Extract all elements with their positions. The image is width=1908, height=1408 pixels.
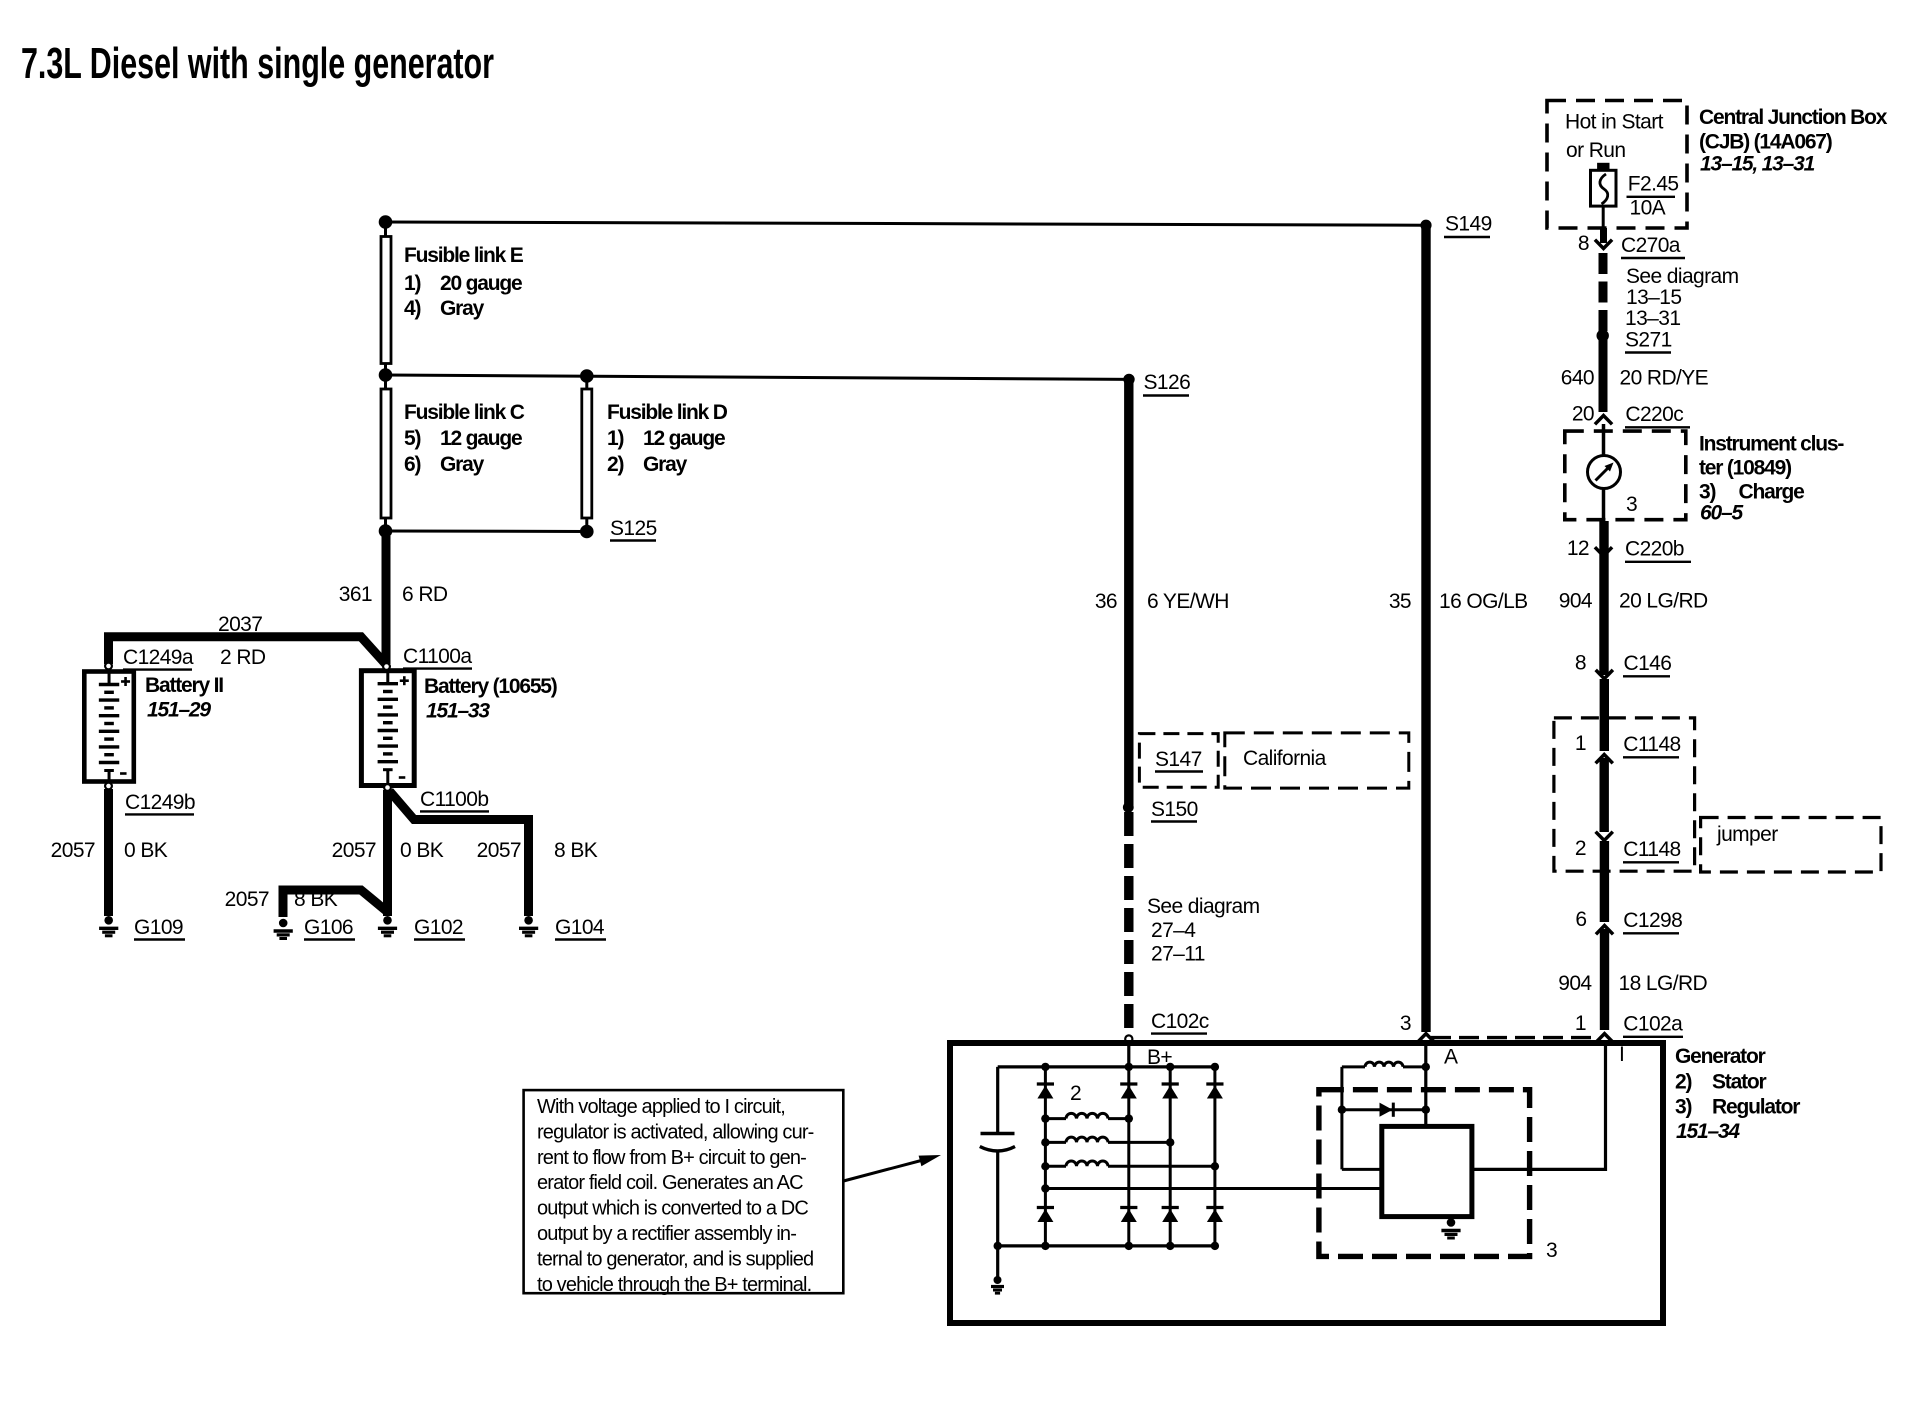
label: wire 2057 8 BK (G106 branch)	[225, 888, 338, 911]
wire: circuit 2037 2 RD from Battery II to battery junction	[109, 637, 387, 665]
C1148 connector block (dashed)	[1554, 718, 1695, 871]
wire: rectifier leg 2	[1127, 1067, 1130, 1246]
svg-text:output which is converted to a: output which is converted to a DC	[537, 1198, 808, 1220]
node: bottom bus junction leg 2	[1125, 1242, 1133, 1250]
node: junction below Fusible link E / top of link C	[379, 368, 393, 382]
svg-text:G106: G106	[304, 916, 353, 939]
wire: circuit 35 16 OG/LB (A circuit) from S149 to generator	[1421, 228, 1430, 1032]
svg-text:S150: S150	[1151, 798, 1198, 821]
svg-text:6): 6)	[404, 453, 420, 476]
svg-text:60–5: 60–5	[1700, 502, 1743, 525]
node: field coil to A terminal	[1422, 1063, 1430, 1071]
battery Battery (10655)	[361, 671, 414, 786]
svg-text:20: 20	[1572, 403, 1594, 426]
svg-text:8: 8	[1578, 232, 1589, 255]
svg-text:151–29: 151–29	[147, 699, 211, 722]
node: top bus junction leg 2	[1125, 1063, 1133, 1071]
svg-text:S149: S149	[1445, 213, 1492, 236]
svg-text:361: 361	[339, 583, 372, 606]
diode (upper, leg 3)	[1162, 1084, 1179, 1099]
label: wire 2057 8 BK (right)	[477, 839, 598, 862]
svg-text:2057: 2057	[477, 839, 521, 862]
regulator block	[1382, 1126, 1472, 1216]
connector C146	[1623, 652, 1671, 676]
wire: circuit 2057 0 BK from C1249b to G109	[104, 789, 113, 916]
svg-text:10A: 10A	[1630, 197, 1666, 220]
svg-text:or Run: or Run	[1566, 139, 1625, 162]
diode (lower, leg 1)	[1037, 1208, 1054, 1223]
svg-text:C1100a: C1100a	[403, 645, 472, 668]
connector C1148 (pin 2)	[1623, 838, 1681, 862]
node: splice S271	[1597, 329, 1609, 341]
connector C220b arrow	[1595, 547, 1612, 556]
svg-text:12: 12	[1567, 537, 1589, 560]
fusible link D	[582, 381, 592, 526]
diode (lower, leg 2)	[1120, 1208, 1137, 1223]
svg-text:C102c: C102c	[1151, 1010, 1209, 1033]
svg-text:2057: 2057	[332, 839, 376, 862]
svg-text:jumper: jumper	[1716, 823, 1778, 846]
svg-text:16 OG/LB: 16 OG/LB	[1439, 590, 1528, 613]
svg-text:36: 36	[1095, 590, 1117, 613]
wire: circuit 361 6 RD from S125 down to battery C1100a	[382, 536, 391, 664]
svg-text:20 gauge: 20 gauge	[440, 272, 522, 295]
svg-text:F2.45: F2.45	[1628, 173, 1679, 196]
svg-text:G104: G104	[555, 916, 605, 939]
svg-text:13–15: 13–15	[1626, 286, 1681, 309]
node: splice S150	[1123, 802, 1134, 813]
svg-text:6 RD: 6 RD	[402, 583, 448, 606]
wire: regulator to I terminal	[1472, 1046, 1606, 1169]
wire: rectifier bottom bus	[998, 1244, 1215, 1247]
wire: rectifier leg 1	[1044, 1067, 1047, 1246]
label: S150	[1151, 798, 1198, 822]
capacitor (noise suppression)	[980, 1067, 1015, 1246]
svg-text:(CJB) (14A067): (CJB) (14A067)	[1699, 131, 1832, 154]
label: wire 35 16 OG/LB	[1389, 590, 1528, 613]
svg-text:See diagram: See diagram	[1626, 265, 1739, 288]
wire: stator neutral to regulator	[1041, 1184, 1382, 1192]
node: S125 right junction	[580, 525, 594, 539]
svg-text:13–15, 13–31: 13–15, 13–31	[1700, 153, 1815, 176]
svg-text:Hot in Start: Hot in Start	[1565, 111, 1664, 134]
svg-text:G102: G102	[414, 916, 463, 939]
node: bottom bus junction leg 3	[1166, 1242, 1174, 1250]
svg-text:35: 35	[1389, 590, 1411, 613]
stator winding phase 1	[1041, 1113, 1133, 1122]
svg-text:12 gauge: 12 gauge	[440, 427, 522, 450]
svg-text:13–31: 13–31	[1625, 307, 1680, 330]
svg-text:C220c: C220c	[1625, 403, 1683, 426]
field suppression diode	[1338, 1103, 1430, 1117]
connector C220b	[1625, 538, 1691, 562]
svg-text:2057: 2057	[51, 839, 95, 862]
svg-text:I: I	[1619, 1043, 1624, 1066]
connector C1100b	[420, 788, 489, 811]
connector C220c	[1625, 403, 1690, 427]
connector C1148 pin 2 arrow	[1596, 832, 1613, 841]
label: wire 2057 0 BK (center)	[332, 839, 444, 862]
svg-text:Instrument clus-: Instrument clus-	[1699, 433, 1844, 456]
Instrument cluster box (dashed)	[1565, 431, 1686, 520]
node: bottom bus junction leg 4	[1211, 1242, 1219, 1250]
svg-text:Regulator: Regulator	[1712, 1096, 1800, 1119]
wire: circuit 904 18 LG/RD from C1298 to C102a	[1600, 929, 1609, 1030]
svg-text:8 BK: 8 BK	[294, 888, 338, 911]
svg-text:C146: C146	[1624, 652, 1672, 675]
wire: second horizontal bus (S125 row top) to S126	[386, 375, 1130, 379]
svg-text:C1100b: C1100b	[420, 788, 488, 811]
svg-text:C1148: C1148	[1623, 733, 1680, 756]
splice box S147 (dashed)	[1139, 734, 1218, 788]
svg-text:A: A	[1444, 1046, 1458, 1069]
connector C1249a (battery II positive)	[123, 646, 194, 670]
svg-text:6 YE/WH: 6 YE/WH	[1147, 590, 1229, 613]
svg-text:5): 5)	[404, 427, 420, 450]
connector C220c arrow	[1595, 416, 1612, 425]
wire: from C146 into C1148 connector block	[1600, 679, 1609, 751]
terminal circle C1249a	[105, 663, 112, 670]
svg-text:Gray: Gray	[440, 453, 485, 476]
wire: capacitor ground stem	[996, 1246, 999, 1277]
terminal circle C1100b	[384, 784, 391, 791]
svg-text:3): 3)	[1699, 481, 1715, 504]
label: S271	[1625, 329, 1672, 353]
arrow from note box to generator	[844, 1155, 942, 1181]
ground regulator symbol	[1441, 1218, 1460, 1238]
label: wire 361 6 RD	[339, 583, 448, 606]
svg-text:Battery (10655): Battery (10655)	[424, 675, 557, 698]
svg-text:See diagram: See diagram	[1147, 895, 1260, 918]
svg-text:8: 8	[1575, 652, 1586, 675]
svg-text:output by a rectifier assembly: output by a rectifier assembly in-	[537, 1223, 796, 1245]
charge indicator gauge	[1588, 456, 1621, 489]
ground G102 symbol	[378, 916, 397, 936]
connector C1298	[1623, 909, 1682, 933]
wire: rectifier leg 3	[1169, 1067, 1172, 1246]
svg-text:151–33: 151–33	[426, 700, 490, 723]
svg-text:C1148: C1148	[1623, 838, 1680, 861]
svg-text:California: California	[1243, 747, 1327, 770]
connector C1148 (pin 1)	[1623, 733, 1681, 757]
label: G109	[134, 916, 185, 940]
svg-text:2): 2)	[607, 453, 623, 476]
wire: rectifier top bus	[998, 1065, 1215, 1068]
svg-text:rent to flow from B+ circuit t: rent to flow from B+ circuit to gen-	[537, 1147, 806, 1169]
node: S125 left junction	[379, 524, 393, 538]
svg-text:C102a: C102a	[1623, 1013, 1683, 1036]
diode (upper, leg 2)	[1120, 1084, 1137, 1099]
svg-text:Fusible link D: Fusible link D	[607, 401, 728, 424]
svg-text:Stator: Stator	[1712, 1071, 1767, 1094]
connector C1249b	[125, 791, 195, 814]
node: splice S149	[1420, 220, 1431, 231]
connector C102a arrow	[1596, 1034, 1613, 1043]
label: F2.45 / 10A	[1627, 173, 1679, 220]
wire: dashed connector line C102 between A and I	[1431, 1036, 1599, 1039]
svg-text:S271: S271	[1625, 329, 1672, 352]
svg-text:C1249b: C1249b	[125, 791, 195, 814]
label: Fusible link D	[607, 401, 728, 476]
terminal circle C102c at generator	[1125, 1035, 1132, 1042]
svg-text:G109: G109	[134, 916, 183, 939]
wire: circuit 904 20 LG/RD from C220b to C146	[1599, 521, 1608, 675]
wire: from C1148 pin 2 to C1298	[1600, 841, 1609, 922]
node: top bus junction leg 4	[1211, 1063, 1219, 1071]
svg-text:to vehicle through the B+ term: to vehicle through the B+ terminal.	[537, 1274, 811, 1296]
svg-text:1: 1	[1575, 1012, 1586, 1035]
fusible link E	[381, 227, 391, 370]
diode (lower, leg 3)	[1162, 1208, 1179, 1223]
svg-text:0 BK: 0 BK	[400, 839, 444, 862]
svg-text:1: 1	[1575, 732, 1586, 755]
label: wire 904 18 LG/RD	[1558, 972, 1707, 995]
wire: circuit 2057 8 BK branch to G104	[390, 791, 529, 916]
label: splice S125	[610, 517, 657, 541]
svg-text:20 LG/RD: 20 LG/RD	[1619, 590, 1708, 613]
wire: bottom tie of fusible links C and D (S125)	[386, 530, 587, 534]
svg-text:S126: S126	[1144, 371, 1191, 394]
label: G102	[414, 916, 465, 940]
svg-text:C270a: C270a	[1621, 234, 1681, 257]
wire: A terminal drop inside generator	[1424, 1044, 1427, 1126]
svg-text:4): 4)	[404, 297, 420, 320]
wire: circuit 640 20 RD/YE from S271 to C220c	[1599, 338, 1608, 412]
svg-text:6: 6	[1575, 908, 1586, 931]
svg-text:27–4: 27–4	[1151, 919, 1196, 942]
label box: California (dashed)	[1225, 733, 1409, 788]
label: Generator 2) Stator 3) Regulator 151-34	[1675, 1045, 1800, 1143]
label: Fusible link E	[404, 244, 524, 320]
svg-text:2): 2)	[1675, 1071, 1691, 1094]
label: See diagram 27-4 27-11	[1147, 895, 1260, 966]
node: splice S126	[1123, 374, 1134, 385]
label: Central Junction Box (CJB) (14A067) 13-15, 13-31	[1699, 106, 1888, 176]
svg-text:regulator is activated, allowi: regulator is activated, allowing cur-	[537, 1121, 814, 1143]
wire: gauge to box bottom	[1602, 489, 1606, 521]
connector C1148 pin 1 arrow	[1596, 755, 1613, 764]
connector C146 arrow	[1596, 670, 1613, 679]
wire: CJB pin 8 to C270a	[1600, 228, 1607, 243]
svg-text:2037: 2037	[218, 613, 262, 636]
svg-text:3: 3	[1626, 493, 1637, 516]
ground G104 symbol	[519, 916, 538, 936]
field coil	[1342, 1062, 1426, 1067]
ground generator case	[991, 1276, 1004, 1293]
svg-text:S147: S147	[1155, 748, 1202, 771]
svg-text:Fusible link C: Fusible link C	[404, 401, 525, 424]
svg-text:With voltage applied to I circ: With voltage applied to I circuit,	[537, 1096, 785, 1118]
connector C1100a (battery positive)	[403, 645, 472, 669]
label: Battery (10655) / 151-33	[424, 675, 557, 723]
svg-text:27–11: 27–11	[1151, 943, 1205, 966]
label: Battery II / 151-29	[145, 674, 223, 722]
svg-text:1): 1)	[607, 427, 623, 450]
generator box	[950, 1043, 1663, 1323]
wire: top horizontal bus to S149	[386, 222, 1427, 225]
node: junction at top of Fusible link D	[580, 369, 594, 383]
fusible link C	[381, 380, 391, 526]
svg-text:2057: 2057	[225, 888, 269, 911]
svg-text:S125: S125	[610, 517, 657, 540]
ground G106 symbol	[274, 919, 293, 939]
svg-text:C220b: C220b	[1625, 538, 1684, 561]
wire: dashed from C270a to S271	[1599, 253, 1608, 331]
svg-text:Generator: Generator	[1675, 1045, 1766, 1068]
wire: circuit 2057 8 BK branch to G106	[283, 890, 387, 917]
svg-text:Gray: Gray	[643, 453, 688, 476]
label: G104	[555, 916, 606, 940]
diode (upper, leg 1)	[1037, 1084, 1054, 1099]
node: top bus junction leg 3	[1166, 1063, 1174, 1071]
label: S149	[1444, 213, 1492, 238]
ground G109 symbol	[99, 916, 118, 936]
battery Battery II	[84, 672, 134, 782]
svg-text:20 RD/YE: 20 RD/YE	[1620, 367, 1709, 390]
svg-text:C1298: C1298	[1623, 909, 1682, 932]
wire: field coil left leg	[1340, 1067, 1343, 1170]
wire: B+ pin into rectifier bus	[1127, 1046, 1130, 1067]
svg-text:Gray: Gray	[440, 297, 485, 320]
label: G106	[304, 916, 355, 940]
label: wire 2057 0 BK (left)	[51, 839, 168, 862]
connector C102a arrow at A terminal	[1417, 1034, 1434, 1043]
svg-text:1): 1)	[404, 272, 420, 295]
wire: dashed continuation of B+ feed to C102c	[1124, 812, 1133, 1034]
svg-text:7.3L Diesel with single genera: 7.3L Diesel with single generator	[21, 39, 494, 88]
diode (lower, leg 4)	[1206, 1208, 1223, 1223]
svg-text:3): 3)	[1675, 1096, 1691, 1119]
svg-text:904: 904	[1558, 972, 1592, 995]
label: See diagram 13-15 13-31	[1625, 265, 1739, 330]
wire: stub into instrument cluster	[1602, 424, 1606, 456]
svg-text:3: 3	[1400, 1012, 1411, 1035]
connector C102c	[1151, 1010, 1209, 1034]
terminal circle C1249b	[105, 783, 112, 790]
svg-text:Central Junction Box: Central Junction Box	[1699, 106, 1888, 129]
svg-text:C1249a: C1249a	[123, 646, 194, 669]
diode (upper, leg 4)	[1206, 1084, 1223, 1099]
svg-text:2 RD: 2 RD	[220, 646, 266, 669]
node: junction at top of Fusible link E	[379, 215, 393, 229]
svg-text:12 gauge: 12 gauge	[643, 427, 725, 450]
svg-text:ter (10849): ter (10849)	[1699, 457, 1791, 480]
label: wire 640 20 RD/YE	[1561, 367, 1709, 390]
svg-text:Fusible link E: Fusible link E	[404, 244, 524, 267]
wire: circuit 36 6 YE/WH (B+ feed) from S126 to S150	[1124, 382, 1133, 807]
label: wire 904 20 LG/RD	[1559, 590, 1708, 613]
svg-text:2: 2	[1070, 1082, 1081, 1105]
wire: field circuit to regulator left	[1342, 1168, 1382, 1171]
node: bottom bus junction leg 1	[1041, 1242, 1049, 1250]
svg-text:2: 2	[1575, 837, 1586, 860]
label: wire 36 6 YE/WH	[1095, 590, 1229, 613]
svg-text:151–34: 151–34	[1676, 1120, 1740, 1143]
label: Instrument cluster (10849) 3) Charge 60-5	[1699, 433, 1844, 525]
note box: regulator operation description	[524, 1090, 844, 1296]
svg-text:Charge: Charge	[1739, 481, 1805, 504]
terminal circle C1100a	[383, 663, 390, 670]
wire: circuit 2057 0 BK from C1100b to G102	[383, 790, 392, 916]
label: Fusible link C	[404, 401, 525, 476]
jumper label box (dashed)	[1701, 818, 1881, 873]
svg-text:640: 640	[1561, 367, 1594, 390]
connector C270a arrow	[1595, 240, 1612, 249]
node: bottom bus at capacitor	[994, 1242, 1002, 1250]
svg-text:ternal to generator, and is su: ternal to generator, and is supplied	[537, 1248, 813, 1270]
wire: regulator ground stem	[1449, 1217, 1452, 1220]
label: S126	[1143, 371, 1190, 396]
svg-text:18 LG/RD: 18 LG/RD	[1619, 972, 1708, 995]
wire: fuse output inside CJB	[1602, 206, 1605, 228]
Central Junction Box (dashed)	[1547, 101, 1687, 229]
svg-text:Battery II: Battery II	[145, 674, 223, 697]
wire: jumper between C1148 pins 1 and 2	[1599, 758, 1608, 832]
connector C270a	[1621, 234, 1685, 258]
svg-text:8 BK: 8 BK	[554, 839, 598, 862]
node: top bus junction leg 1	[1041, 1063, 1049, 1071]
stator winding phase 2	[1041, 1137, 1174, 1146]
label: Hot in Start or Run	[1565, 111, 1664, 163]
connector C1298 arrow	[1596, 926, 1613, 935]
regulator section box 3 (dashed)	[1319, 1090, 1530, 1257]
wire: rectifier leg 4	[1213, 1067, 1216, 1246]
fuse F2.45 10A	[1591, 163, 1617, 206]
svg-text:3: 3	[1546, 1239, 1557, 1262]
svg-text:0 BK: 0 BK	[124, 839, 168, 862]
svg-text:erator field coil. Generates a: erator field coil. Generates an AC	[537, 1172, 803, 1194]
stator winding phase 3	[1041, 1161, 1219, 1170]
connector C102a	[1623, 1013, 1683, 1037]
svg-text:904: 904	[1559, 590, 1593, 613]
